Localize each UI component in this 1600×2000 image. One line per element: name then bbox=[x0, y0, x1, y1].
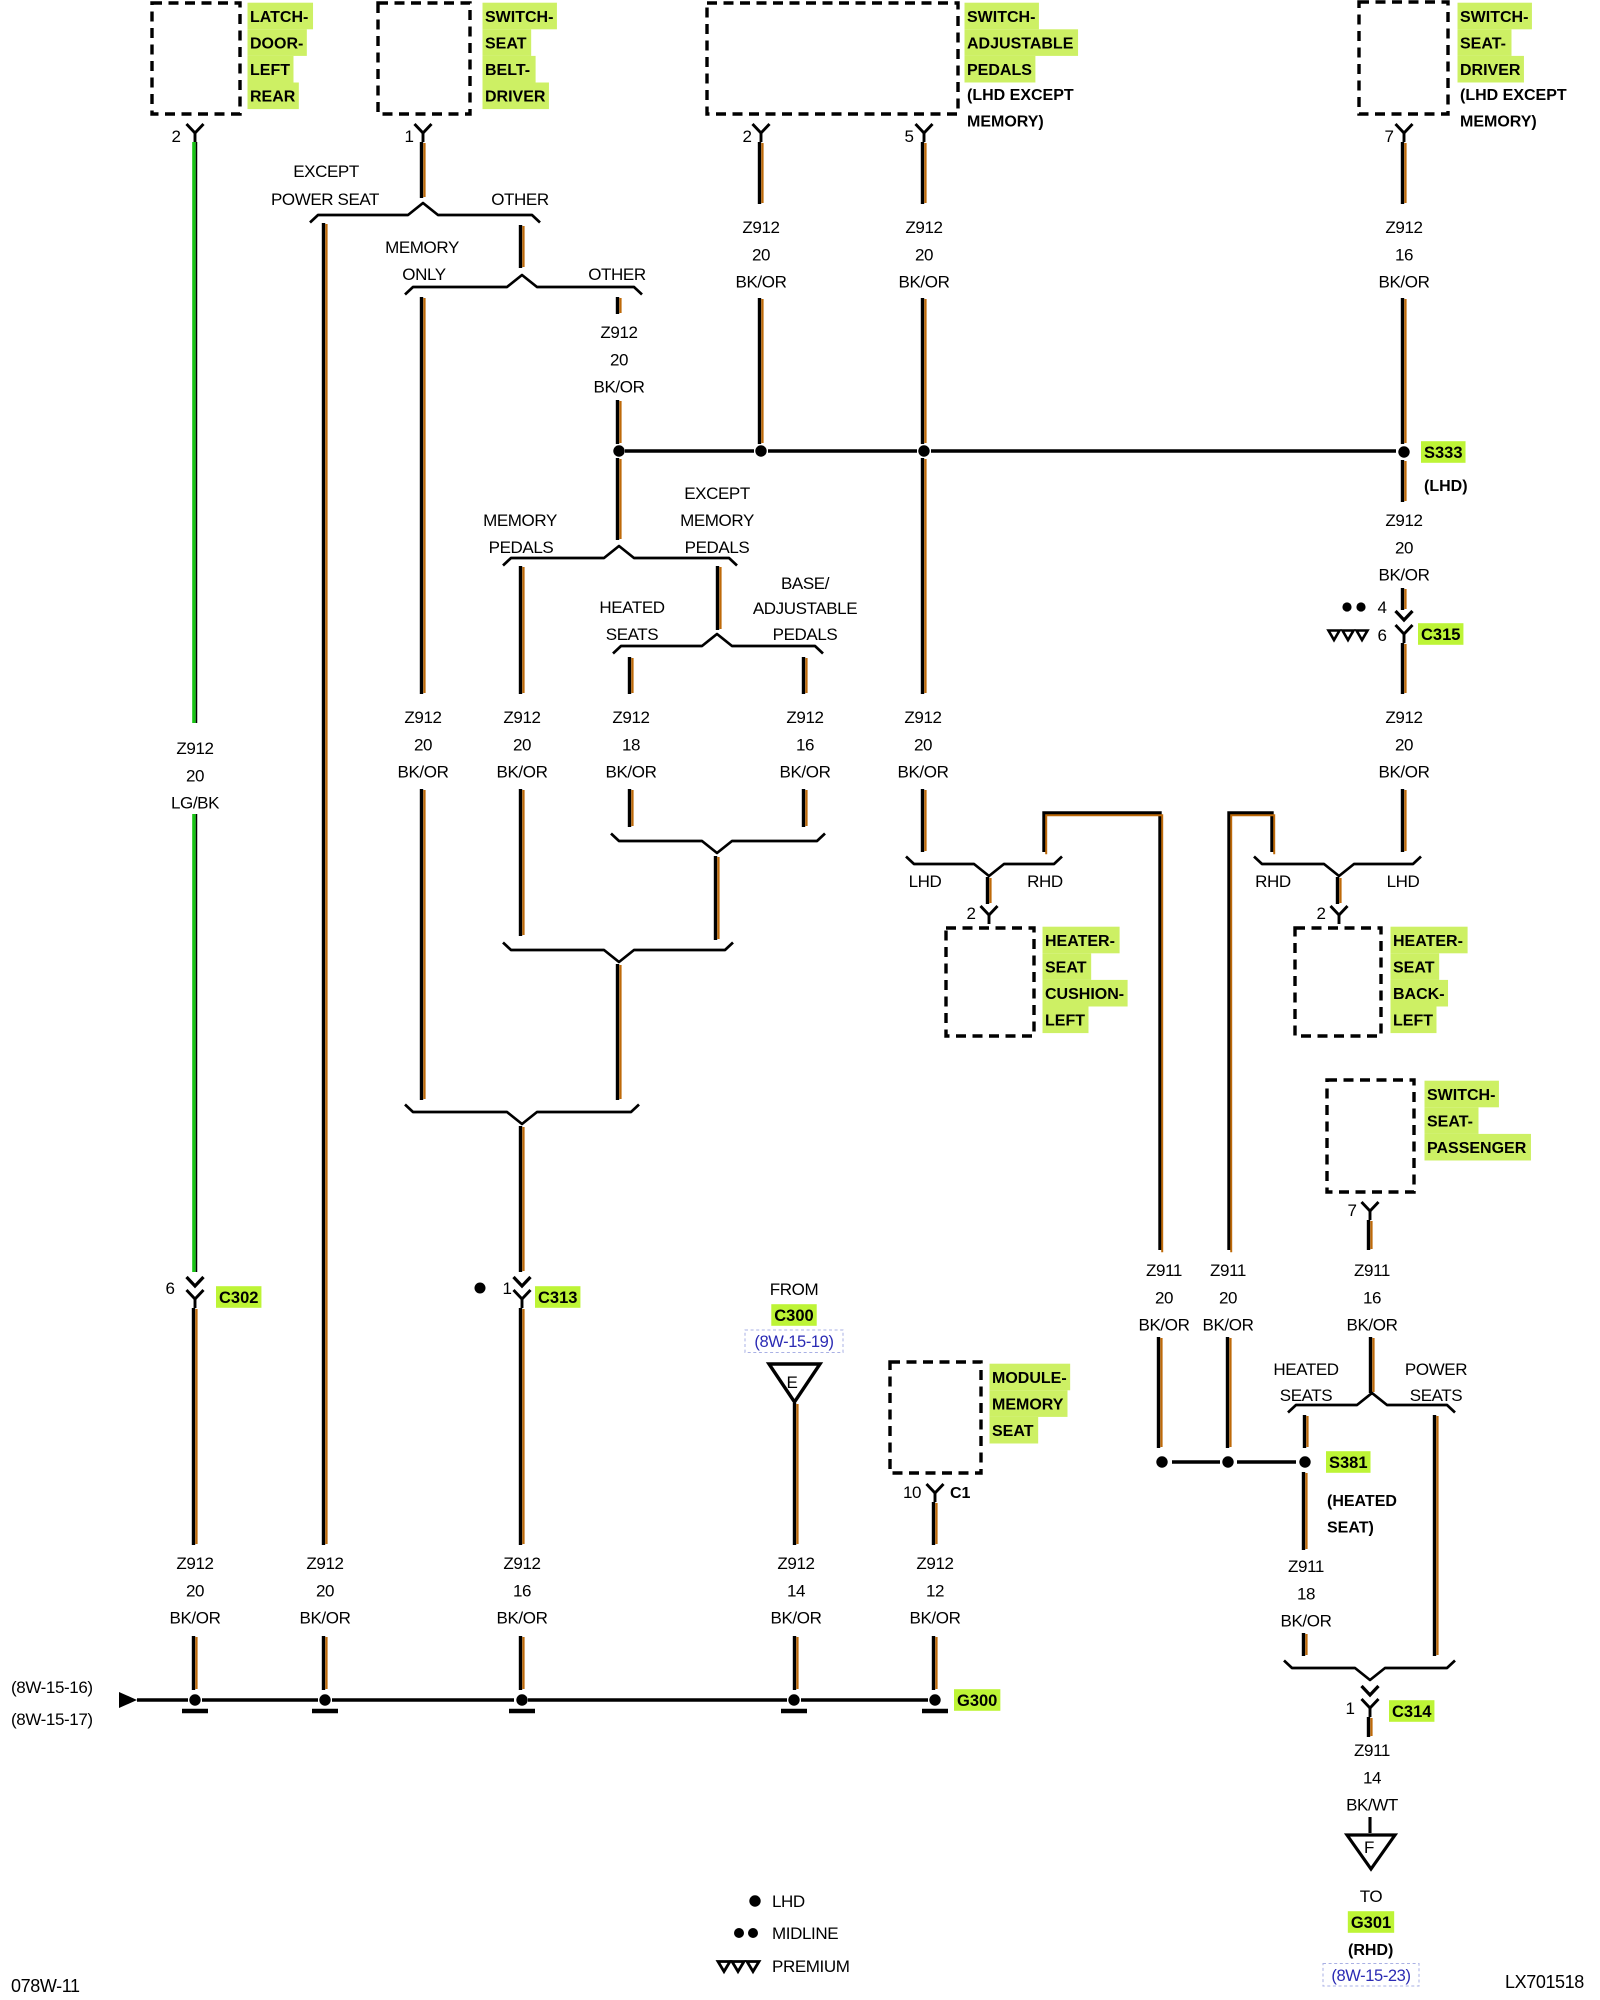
label SWITCH-ADJUSTABLE PEDALS bbox=[965, 3, 1039, 30]
svg-text:Z912: Z912 bbox=[1385, 218, 1422, 237]
wire below second merge bbox=[616, 964, 619, 1100]
svg-text:SEAT: SEAT bbox=[485, 36, 527, 53]
svg-text:20: 20 bbox=[414, 735, 432, 754]
svg-text:POWER: POWER bbox=[1405, 1360, 1467, 1379]
svg-text:FROM: FROM bbox=[770, 1280, 818, 1299]
wire below big merge down to C313 bbox=[519, 1126, 522, 1272]
wire from triangle E down bbox=[793, 1403, 796, 1545]
wire from passenger switch pin 7 bbox=[1367, 1220, 1370, 1250]
wire HEATED SEATS branch lower bbox=[628, 789, 631, 827]
svg-text:RHD: RHD bbox=[1255, 872, 1291, 891]
wire into C315 connector bbox=[1401, 588, 1404, 610]
connector C313 fork bbox=[514, 1290, 531, 1299]
svg-text:Z911: Z911 bbox=[1146, 1261, 1182, 1280]
svg-text:MEMORY: MEMORY bbox=[483, 511, 557, 530]
svg-text:Z912: Z912 bbox=[904, 708, 941, 727]
svg-text:DRIVER: DRIVER bbox=[485, 89, 546, 106]
svg-text:DOOR-: DOOR- bbox=[250, 36, 303, 53]
svg-text:Z912: Z912 bbox=[503, 708, 540, 727]
svg-text:SEAT: SEAT bbox=[1393, 960, 1435, 977]
svg-text:BK/OR: BK/OR bbox=[170, 1609, 221, 1628]
svg-text:20: 20 bbox=[1395, 735, 1413, 754]
svg-text:SEATS: SEATS bbox=[1280, 1386, 1333, 1405]
wire BASE/ADJ PEDALS branch upper bbox=[802, 657, 805, 694]
wire OTHER branch stub to junction bus bbox=[616, 400, 619, 444]
wire pedals pin 5 lower segment to bus junction bbox=[921, 298, 924, 444]
svg-text:PEDALS: PEDALS bbox=[489, 538, 554, 557]
wire MEMORY ONLY branch lower segment to big merge bbox=[420, 789, 423, 1100]
junction dot (pedals pin 5) bbox=[918, 445, 929, 456]
svg-text:G300: G300 bbox=[957, 1692, 997, 1710]
svg-text:Z912: Z912 bbox=[905, 218, 942, 237]
wire stub to ground bus (memory seat feed) bbox=[793, 1636, 796, 1690]
svg-text:2: 2 bbox=[966, 904, 975, 923]
svg-text:Z912: Z912 bbox=[916, 1554, 953, 1573]
wire RHD hook for cushion heater (up-over-down) bbox=[1044, 813, 1160, 1250]
svg-text:Z912: Z912 bbox=[1385, 708, 1422, 727]
wire HEATED SEATS branch upper bbox=[628, 657, 631, 694]
svg-text:1: 1 bbox=[404, 127, 413, 146]
svg-text:MEMORY): MEMORY) bbox=[967, 114, 1044, 131]
svg-text:6: 6 bbox=[1377, 626, 1386, 645]
svg-text:2: 2 bbox=[742, 127, 751, 146]
wire split: MEMORY ONLY / OTHER bbox=[405, 275, 642, 295]
svg-text:BK/OR: BK/OR bbox=[1347, 1316, 1398, 1335]
svg-text:BK/OR: BK/OR bbox=[736, 273, 787, 292]
svg-text:20: 20 bbox=[752, 245, 770, 264]
svg-text:C313: C313 bbox=[538, 1289, 577, 1307]
wire lower segment into LHD/RHD merge (cushion) bbox=[921, 789, 924, 852]
svg-text:LHD: LHD bbox=[1387, 872, 1420, 891]
svg-text:BK/OR: BK/OR bbox=[594, 378, 645, 397]
svg-text:2: 2 bbox=[1316, 904, 1325, 923]
wire from module pin 10 bbox=[932, 1502, 935, 1545]
wire below C314 bbox=[1367, 1717, 1370, 1737]
wire below seat back merge to pin 2 bbox=[1336, 877, 1339, 904]
ground bus arrow (from 8W-15-16/17) bbox=[119, 1692, 137, 1708]
svg-text:Z912: Z912 bbox=[777, 1554, 814, 1573]
svg-text:Z912: Z912 bbox=[176, 1554, 213, 1573]
svg-text:PEDALS: PEDALS bbox=[685, 538, 750, 557]
svg-text:20: 20 bbox=[1219, 1288, 1237, 1307]
wire below first merge bbox=[714, 856, 717, 940]
component box: MODULE-MEMORY SEAT (dashed) bbox=[890, 1362, 981, 1473]
svg-text:S381: S381 bbox=[1329, 1454, 1368, 1472]
svg-text:SWITCH-: SWITCH- bbox=[485, 9, 553, 26]
svg-text:C300: C300 bbox=[774, 1307, 813, 1325]
wire stub to ground bus (C313 branch) bbox=[519, 1636, 522, 1690]
splice S381 bus bbox=[1172, 1460, 1220, 1464]
wire below C302 bbox=[192, 1308, 195, 1545]
svg-text:SEAT-: SEAT- bbox=[1427, 1114, 1473, 1131]
svg-text:BK/OR: BK/OR bbox=[1281, 1612, 1332, 1631]
wire MEMORY PEDALS branch upper bbox=[519, 566, 522, 694]
svg-text:1: 1 bbox=[502, 1279, 511, 1298]
svg-text:OTHER: OTHER bbox=[491, 190, 549, 209]
wire BASE/ADJ PEDALS branch lower bbox=[802, 789, 805, 827]
wire stub cushion RHD run to S381 bbox=[1157, 1337, 1160, 1448]
component box: SWITCH-ADJUSTABLE PEDALS (dashed) bbox=[707, 3, 958, 114]
junction dot S381 left (cushion) bbox=[1156, 1456, 1167, 1467]
wire merge RHD/LHD for heater seat back bbox=[1254, 857, 1421, 877]
wire Z912 20 LG/BK (green) from latch pin 2 down to C302 bbox=[192, 142, 196, 723]
connector C314 chevron bbox=[1362, 1686, 1379, 1695]
label G300 bbox=[954, 1689, 1000, 1711]
svg-text:(LHD EXCEPT: (LHD EXCEPT bbox=[1460, 87, 1567, 104]
ground bus G300 bbox=[137, 1698, 188, 1702]
svg-text:MEMORY: MEMORY bbox=[385, 238, 459, 257]
wire below junction 619 to split MEMORY PEDALS bbox=[616, 458, 619, 540]
svg-text:S333: S333 bbox=[1424, 444, 1463, 462]
svg-text:LEFT: LEFT bbox=[250, 62, 290, 79]
svg-text:(8W-15-17): (8W-15-17) bbox=[11, 1710, 93, 1729]
label HEATER-SEAT BACK-LEFT bbox=[1391, 927, 1468, 954]
ground junction dot + tick (except power seat branch) bbox=[319, 1694, 330, 1705]
wire pedals pin 2 lower segment to bus junction bbox=[758, 298, 761, 444]
svg-text:SEATS: SEATS bbox=[1410, 1386, 1463, 1405]
junction dot (other branch) bbox=[613, 445, 624, 456]
svg-text:14: 14 bbox=[1363, 1768, 1381, 1787]
svg-text:(8W-15-23): (8W-15-23) bbox=[1331, 1967, 1410, 1985]
label SWITCH-SEAT-DRIVER bbox=[1458, 3, 1532, 30]
wire MEMORY PEDALS branch lower to merge bbox=[519, 789, 522, 936]
connector C302 chevron (end of green wire) bbox=[187, 1277, 204, 1286]
wire stub to ground bus (C302 branch) bbox=[192, 1636, 195, 1690]
wire merge heated-seat + power-seat branches bbox=[1284, 1661, 1455, 1681]
wire merge of heated seats + base/adjustable branches bbox=[611, 834, 825, 854]
svg-text:(HEATED: (HEATED bbox=[1327, 1493, 1397, 1510]
connector C315 fork bbox=[1396, 625, 1413, 634]
svg-text:HEATED: HEATED bbox=[599, 598, 664, 617]
junction dot S381 right (heated seats) bbox=[1299, 1456, 1310, 1467]
svg-text:LX701518: LX701518 bbox=[1505, 1972, 1584, 1992]
component box: HEATER-SEAT BACK-LEFT (dashed) bbox=[1295, 928, 1381, 1036]
splice S333 dot bbox=[1398, 446, 1409, 457]
label S333 bbox=[1421, 441, 1466, 463]
label HEATER-SEAT CUSHION-LEFT bbox=[1043, 927, 1120, 954]
svg-text:BK/OR: BK/OR bbox=[1203, 1316, 1254, 1335]
wire merge with memory-only branch bbox=[405, 1105, 639, 1125]
in-line connector triangle E (from C300) bbox=[769, 1364, 820, 1402]
svg-text:SEAT: SEAT bbox=[992, 1423, 1034, 1440]
wire split: HEATED SEATS / POWER SEATS bbox=[1288, 1393, 1455, 1413]
svg-text:Z912: Z912 bbox=[404, 708, 441, 727]
svg-text:SWITCH-: SWITCH- bbox=[1427, 1087, 1495, 1104]
wire stub into C314 merge bbox=[1302, 1633, 1305, 1656]
wire OTHER branch stub above label bbox=[616, 297, 619, 314]
label SWITCH-SEAT-PASSENGER bbox=[1425, 1081, 1499, 1108]
svg-text:C314: C314 bbox=[1392, 1703, 1432, 1721]
PREMIUM marker triangles and pin 6 at C315 bbox=[1329, 631, 1340, 641]
svg-text:E: E bbox=[787, 1373, 798, 1392]
wire RHD hook for seat back heater (up-over-down) bbox=[1229, 813, 1272, 1250]
svg-text:POWER SEAT: POWER SEAT bbox=[271, 190, 379, 209]
ground junction dot + tick (memory seat feed) bbox=[788, 1694, 799, 1705]
ground junction dot + tick (C313 branch) bbox=[516, 1694, 527, 1705]
svg-text:16: 16 bbox=[796, 735, 814, 754]
wire stub seat back RHD run to S381 bbox=[1226, 1337, 1229, 1448]
svg-text:BK/OR: BK/OR bbox=[771, 1609, 822, 1628]
wire from pedals switch pin 2 down bbox=[758, 142, 761, 204]
wire split: HEATED SEATS / BASE ADJUSTABLE PEDALS bbox=[613, 634, 823, 654]
label LATCH-DOOR-LEFT REAR bbox=[248, 3, 314, 30]
svg-text:EXCEPT: EXCEPT bbox=[684, 484, 750, 503]
connector C314 fork bbox=[1362, 1699, 1379, 1708]
svg-text:7: 7 bbox=[1384, 127, 1393, 146]
svg-text:LHD: LHD bbox=[772, 1892, 805, 1911]
svg-text:12: 12 bbox=[926, 1581, 944, 1600]
ground junction dot + tick (C302 branch) bbox=[189, 1694, 200, 1705]
svg-text:18: 18 bbox=[1297, 1584, 1315, 1603]
svg-text:ADJUSTABLE: ADJUSTABLE bbox=[753, 599, 857, 618]
svg-text:PEDALS: PEDALS bbox=[967, 62, 1032, 79]
label SWITCH-SEAT BELT-DRIVER bbox=[483, 3, 557, 30]
svg-text:DRIVER: DRIVER bbox=[1460, 62, 1521, 79]
wire EXCEPT MEMORY PEDALS branch to next split bbox=[716, 566, 719, 630]
MIDLINE marker dots and pin 4 at C315 bbox=[1342, 602, 1351, 611]
svg-text:MEMORY: MEMORY bbox=[992, 1397, 1064, 1414]
svg-text:20: 20 bbox=[610, 350, 628, 369]
svg-text:C302: C302 bbox=[219, 1289, 258, 1307]
wire stub to ground bus (module branch) bbox=[932, 1636, 935, 1690]
svg-text:BASE/: BASE/ bbox=[781, 574, 830, 593]
svg-text:BACK-: BACK- bbox=[1393, 986, 1445, 1003]
svg-text:BK/OR: BK/OR bbox=[1139, 1316, 1190, 1335]
svg-text:ONLY: ONLY bbox=[402, 265, 445, 284]
svg-text:MEMORY: MEMORY bbox=[680, 511, 754, 530]
wire into HEATED/POWER split bbox=[1369, 1337, 1372, 1393]
ground reference triangle F bbox=[1347, 1835, 1395, 1869]
hyperlink (8W-15-23) bbox=[1323, 1964, 1419, 1987]
svg-text:C1: C1 bbox=[950, 1485, 971, 1502]
label S381 bbox=[1326, 1451, 1371, 1473]
connector C315 chevron bbox=[1396, 611, 1413, 620]
svg-text:078W-11: 078W-11 bbox=[11, 1976, 80, 1996]
svg-text:BK/WT: BK/WT bbox=[1346, 1796, 1398, 1815]
legend: LHD marker bbox=[749, 1895, 760, 1906]
svg-text:6: 6 bbox=[165, 1279, 174, 1298]
component box: SWITCH-SEAT BELT-DRIVER (dashed) bbox=[378, 3, 470, 114]
svg-text:BK/OR: BK/OR bbox=[780, 763, 831, 782]
svg-text:EXCEPT: EXCEPT bbox=[293, 162, 359, 181]
svg-text:F: F bbox=[1364, 1838, 1374, 1857]
svg-text:TO: TO bbox=[1360, 1887, 1383, 1906]
svg-text:SEAT): SEAT) bbox=[1327, 1520, 1374, 1537]
svg-text:BK/OR: BK/OR bbox=[606, 763, 657, 782]
svg-text:PASSENGER: PASSENGER bbox=[1427, 1140, 1527, 1157]
svg-text:BK/OR: BK/OR bbox=[910, 1609, 961, 1628]
svg-text:CUSHION-: CUSHION- bbox=[1045, 986, 1124, 1003]
wire below C313 bbox=[519, 1308, 522, 1545]
svg-text:BK/OR: BK/OR bbox=[899, 273, 950, 292]
legend: MIDLINE marker bbox=[734, 1928, 744, 1938]
wire Z912 from belt switch pin 1 to split bbox=[420, 142, 423, 198]
svg-text:LEFT: LEFT bbox=[1045, 1013, 1085, 1030]
svg-text:20: 20 bbox=[914, 735, 932, 754]
svg-text:SEAT: SEAT bbox=[1045, 960, 1087, 977]
svg-text:(LHD EXCEPT: (LHD EXCEPT bbox=[967, 87, 1074, 104]
svg-text:2: 2 bbox=[171, 127, 180, 146]
wire stub to ground triangle F bbox=[1368, 1817, 1371, 1833]
svg-text:Z912: Z912 bbox=[306, 1554, 343, 1573]
wire below S381 bbox=[1302, 1472, 1305, 1550]
svg-text:Z912: Z912 bbox=[612, 708, 649, 727]
svg-text:(8W-15-19): (8W-15-19) bbox=[754, 1333, 833, 1351]
wire MEMORY ONLY branch upper segment bbox=[420, 297, 423, 694]
wire below S333: upper stub bbox=[1401, 460, 1404, 502]
svg-text:BK/OR: BK/OR bbox=[898, 763, 949, 782]
svg-text:20: 20 bbox=[915, 245, 933, 264]
junction dot (pedals pin 2) bbox=[755, 445, 766, 456]
svg-text:20: 20 bbox=[1155, 1288, 1173, 1307]
svg-text:LEFT: LEFT bbox=[1393, 1013, 1433, 1030]
wire lower segment into RHD/LHD merge (seat back) bbox=[1401, 789, 1404, 852]
svg-text:G301: G301 bbox=[1351, 1914, 1391, 1932]
svg-text:HEATED: HEATED bbox=[1273, 1360, 1338, 1379]
junction dot S381 middle (seat back) bbox=[1222, 1456, 1233, 1467]
svg-text:LHD: LHD bbox=[909, 872, 942, 891]
svg-text:RHD: RHD bbox=[1027, 872, 1063, 891]
connector C313 chevron bbox=[514, 1277, 531, 1286]
wire below pedals pin5 junction bbox=[921, 458, 924, 694]
svg-text:16: 16 bbox=[513, 1581, 531, 1600]
svg-text:20: 20 bbox=[513, 735, 531, 754]
svg-text:Z912: Z912 bbox=[742, 218, 779, 237]
wire split: MEMORY PEDALS / EXCEPT MEMORY PEDALS bbox=[503, 546, 737, 566]
svg-text:1: 1 bbox=[1345, 1699, 1354, 1718]
label C315 bbox=[1418, 623, 1463, 645]
svg-text:Z911: Z911 bbox=[1210, 1261, 1246, 1280]
svg-text:Z912: Z912 bbox=[1385, 511, 1422, 530]
wire from seat-driver switch pin 7 down bbox=[1401, 142, 1404, 204]
wire Z912 20 LG/BK lower segment bbox=[192, 814, 196, 1272]
wire OTHER branch down to second split bbox=[519, 225, 522, 268]
svg-text:BK/OR: BK/OR bbox=[1379, 273, 1430, 292]
svg-text:OTHER: OTHER bbox=[588, 265, 646, 284]
svg-text:4: 4 bbox=[1377, 598, 1386, 617]
svg-text:BK/OR: BK/OR bbox=[497, 763, 548, 782]
svg-text:C315: C315 bbox=[1421, 626, 1460, 644]
svg-text:(RHD): (RHD) bbox=[1348, 1942, 1393, 1959]
svg-text:Z912: Z912 bbox=[503, 1554, 540, 1573]
svg-text:Z912: Z912 bbox=[786, 708, 823, 727]
svg-text:20: 20 bbox=[1395, 538, 1413, 557]
component box: LATCH-DOOR-LEFT REAR (dashed) bbox=[152, 3, 240, 114]
component box: HEATER-SEAT CUSHION-LEFT (dashed) bbox=[946, 928, 1034, 1036]
svg-text:SWITCH-: SWITCH- bbox=[1460, 9, 1528, 26]
svg-text:Z911: Z911 bbox=[1354, 1261, 1390, 1280]
svg-text:SEATS: SEATS bbox=[606, 625, 659, 644]
svg-text:7: 7 bbox=[1347, 1201, 1356, 1220]
svg-text:BELT-: BELT- bbox=[485, 62, 530, 79]
svg-text:14: 14 bbox=[787, 1581, 805, 1600]
wire POWER SEATS branch down to C314 merge bbox=[1433, 1415, 1436, 1656]
wire HEATED SEATS branch to S381 bbox=[1303, 1415, 1306, 1448]
ground junction dot + tick G300 bbox=[929, 1694, 940, 1705]
label C313 bbox=[535, 1286, 580, 1308]
svg-text:18: 18 bbox=[622, 735, 640, 754]
wire seat driver pin 7 lower segment to S333 bbox=[1401, 298, 1404, 444]
svg-text:20: 20 bbox=[186, 1581, 204, 1600]
wire stub to ground bus (except power seat branch) bbox=[322, 1636, 325, 1690]
wire below cushion merge to pin 2 bbox=[986, 877, 989, 904]
connector C302 fork bbox=[187, 1290, 204, 1299]
svg-text:BK/OR: BK/OR bbox=[300, 1609, 351, 1628]
svg-text:REAR: REAR bbox=[250, 89, 296, 106]
wire below C315 bbox=[1401, 643, 1404, 694]
LHD option dot next to C313 bbox=[475, 1283, 486, 1294]
svg-text:BK/OR: BK/OR bbox=[1379, 763, 1430, 782]
svg-text:MEMORY): MEMORY) bbox=[1460, 114, 1537, 131]
svg-text:BK/OR: BK/OR bbox=[497, 1609, 548, 1628]
wire EXCEPT POWER SEAT branch (Z912 20 BK/OR) long run bbox=[322, 223, 325, 1545]
svg-text:(8W-15-16): (8W-15-16) bbox=[11, 1678, 93, 1697]
svg-text:HEATER-: HEATER- bbox=[1045, 933, 1115, 950]
wire merge LHD/RHD for heater cushion bbox=[906, 857, 1062, 877]
svg-text:16: 16 bbox=[1395, 245, 1413, 264]
label MODULE-MEMORY SEAT bbox=[990, 1364, 1071, 1391]
label C314 bbox=[1389, 1700, 1434, 1722]
svg-text:(LHD): (LHD) bbox=[1424, 478, 1468, 495]
svg-text:LG/BK: LG/BK bbox=[171, 794, 220, 813]
svg-text:SEAT-: SEAT- bbox=[1460, 36, 1506, 53]
wire merge with memory pedals branch bbox=[503, 943, 733, 963]
wire split: EXCEPT POWER SEAT / OTHER bbox=[310, 203, 540, 223]
svg-text:10: 10 bbox=[903, 1483, 921, 1502]
svg-text:MIDLINE: MIDLINE bbox=[772, 1924, 838, 1943]
component box: SWITCH-SEAT-PASSENGER (dashed) bbox=[1327, 1080, 1414, 1192]
svg-text:BK/OR: BK/OR bbox=[398, 763, 449, 782]
label C302 bbox=[216, 1286, 261, 1308]
svg-text:PREMIUM: PREMIUM bbox=[772, 1957, 849, 1976]
svg-text:5: 5 bbox=[904, 127, 913, 146]
svg-text:ADJUSTABLE: ADJUSTABLE bbox=[967, 36, 1074, 53]
bus wire joining junctions at y=451 bbox=[625, 449, 754, 453]
svg-text:SWITCH-: SWITCH- bbox=[967, 9, 1035, 26]
svg-text:HEATER-: HEATER- bbox=[1393, 933, 1463, 950]
svg-text:MODULE-: MODULE- bbox=[992, 1370, 1067, 1387]
svg-text:Z911: Z911 bbox=[1288, 1557, 1324, 1576]
svg-text:Z911: Z911 bbox=[1354, 1741, 1390, 1760]
svg-text:16: 16 bbox=[1363, 1288, 1381, 1307]
wire from pedals switch pin 5 down bbox=[921, 142, 924, 204]
svg-text:Z912: Z912 bbox=[600, 323, 637, 342]
svg-text:20: 20 bbox=[186, 766, 204, 785]
svg-text:Z912: Z912 bbox=[176, 739, 213, 758]
component box: SWITCH-SEAT-DRIVER (dashed) bbox=[1359, 2, 1448, 114]
legend: PREMIUM marker bbox=[718, 1962, 730, 1972]
svg-text:PEDALS: PEDALS bbox=[773, 625, 838, 644]
svg-text:LATCH-: LATCH- bbox=[250, 9, 308, 26]
svg-text:20: 20 bbox=[316, 1581, 334, 1600]
svg-text:BK/OR: BK/OR bbox=[1379, 566, 1430, 585]
